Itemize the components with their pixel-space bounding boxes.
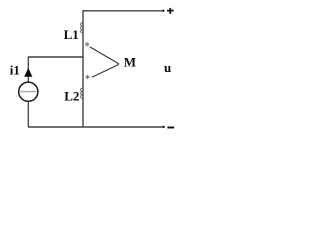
- svg-text:M: M: [124, 55, 136, 70]
- node + terminal dot top: [162, 10, 164, 12]
- wire top horizontal: [83, 10, 162, 12]
- wire left branch upper: [27, 57, 29, 82]
- coupling line bottom: [92, 64, 119, 77]
- current source i1: [19, 82, 38, 101]
- wire middle branch vertical: [82, 10, 84, 127]
- inductor L1: [81, 23, 83, 34]
- svg-text:u: u: [164, 60, 171, 75]
- current arrow: [24, 68, 32, 77]
- node - terminal dot bottom: [162, 126, 164, 128]
- svg-text:L1: L1: [64, 27, 79, 42]
- label +: [167, 8, 174, 14]
- inductor L2: [81, 88, 83, 99]
- wire tee horizontal: [28, 56, 83, 58]
- dot mark asterisk bottom: [86, 75, 90, 80]
- current source bar: [20, 91, 36, 93]
- coupling line top: [90, 47, 119, 64]
- svg-text:L2: L2: [64, 88, 79, 103]
- wire left branch lower: [27, 101, 29, 127]
- svg-text:i1: i1: [10, 63, 20, 78]
- wire bottom horizontal: [28, 126, 162, 128]
- dot mark asterisk top: [85, 42, 89, 47]
- label -: [167, 127, 174, 129]
